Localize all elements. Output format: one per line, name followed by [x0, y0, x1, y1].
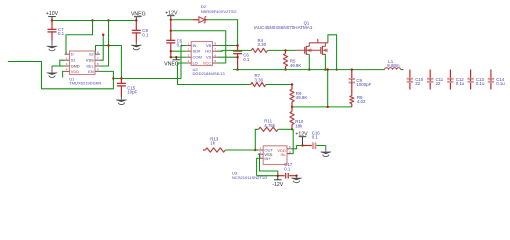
label L1: [388, 59, 393, 64]
capacitor C17: [278, 173, 297, 179]
wire VS sense down: [327, 70, 329, 107]
label R4: [258, 38, 267, 47]
wire LO to R7: [178, 63, 251, 85]
junction OUT node: [254, 149, 256, 151]
label C8: [142, 28, 149, 37]
capacitor C8: [132, 21, 141, 45]
svg-text:LO: LO: [192, 61, 197, 66]
svg-text:3.30: 3.30: [258, 42, 267, 47]
capacitor C12: [447, 70, 453, 90]
svg-text:9.88m: 9.88m: [387, 63, 400, 68]
junction VS rail: [327, 68, 329, 70]
capacitor C10: [407, 70, 413, 90]
wire +12V down: [170, 20, 172, 41]
svg-text:D: D: [71, 52, 74, 57]
svg-text:49.9K: 49.9K: [296, 95, 308, 100]
label U1: [69, 76, 75, 81]
ground at U1: [46, 72, 58, 77]
svg-text:22: 22: [415, 81, 420, 86]
svg-text:VB: VB: [206, 43, 212, 48]
resistor R11: [259, 127, 279, 131]
junction gate node: [284, 49, 286, 51]
resistor R5: [283, 50, 287, 69]
svg-text:49.9K: 49.9K: [290, 63, 302, 68]
svg-text:0.1: 0.1: [284, 166, 291, 171]
svg-text:4.75k: 4.75k: [264, 123, 276, 128]
label R7: [255, 73, 264, 82]
op-amp U3 NCS21911 body: [258, 146, 292, 165]
junction top rail at SEL riser: [107, 19, 109, 21]
power port +12V: [165, 10, 178, 19]
label U1 partno: [69, 80, 101, 85]
capacitor C6: [233, 46, 242, 70]
wire Q1 loop: [328, 35, 337, 70]
wire -12V rail: [257, 175, 278, 177]
junction S2 branch: [107, 44, 109, 46]
gate driver U2 DGD2184 body: [186, 42, 217, 66]
svg-text:0.1u: 0.1u: [496, 81, 505, 86]
svg-text:0.1: 0.1: [58, 31, 65, 36]
wire VS branch: [218, 56, 238, 58]
label R5: [290, 59, 302, 68]
wire R11 feedback: [278, 128, 292, 130]
label Q1 partno: [254, 25, 313, 30]
U3 pin names: [264, 148, 286, 161]
ground below C7: [46, 46, 58, 51]
svg-text:IAUC45N04S6N070HATMA1: IAUC45N04S6N070HATMA1: [254, 25, 313, 30]
wire S1 to gnd net: [60, 60, 65, 66]
ground below C8: [131, 45, 143, 50]
wire VDD stub down: [63, 71, 65, 77]
power port -12V: [272, 176, 283, 188]
wire GND pin: [52, 66, 65, 72]
junction mid node VS: [327, 106, 329, 108]
label U3: [232, 171, 238, 176]
resistor R4: [251, 48, 267, 52]
svg-text:NSR05F40XV2TSG: NSR05F40XV2TSG: [201, 9, 237, 14]
wire Q1 drain rail: [309, 39, 328, 43]
capacitor C16: [303, 142, 326, 149]
wire VDD link: [292, 146, 303, 149]
junction +12V lower: [170, 30, 172, 32]
svg-text:EN: EN: [88, 69, 94, 74]
label C17: [284, 162, 293, 171]
label C5: [177, 38, 184, 47]
wire R13 to OUT: [225, 149, 258, 151]
wire VSS riser: [100, 35, 103, 60]
label R13: [210, 136, 219, 145]
svg-text:0.1: 0.1: [177, 43, 184, 48]
wire S2 branch: [96, 46, 122, 79]
resistor R13: [203, 148, 225, 152]
svg-text:SD#: SD#: [192, 49, 201, 54]
capacitor C9: [349, 70, 355, 96]
junction C15: [120, 77, 122, 79]
junction top rail at C7: [51, 19, 53, 21]
junction C6 rail: [236, 68, 238, 70]
svg-text:0.1u: 0.1u: [456, 81, 465, 86]
label C15: [127, 85, 137, 94]
label C12: [456, 77, 465, 86]
wire Q1 source A down: [308, 54, 310, 69]
label C16: [312, 130, 321, 139]
wire top rail: [52, 20, 136, 22]
power port +12V (U3): [295, 131, 308, 145]
wire source rail: [233, 69, 385, 71]
svg-text:0.1: 0.1: [243, 57, 250, 62]
label D2 partno: [201, 9, 237, 14]
wire SEL riser: [100, 21, 109, 67]
junction COM: [170, 56, 172, 58]
U2 pin numbers: [187, 42, 216, 64]
junction top rail at D riser: [91, 19, 93, 21]
svg-text:S1: S1: [71, 58, 77, 63]
wire R11 to OUT: [255, 129, 258, 150]
label C6: [243, 53, 250, 62]
label R10: [295, 119, 304, 128]
U1 pin names: [71, 52, 95, 74]
svg-text:-12V: -12V: [272, 182, 283, 188]
svg-text:COM: COM: [192, 55, 201, 60]
wire signal to U2 IN: [113, 46, 186, 79]
junction R5 rail: [284, 68, 286, 70]
capacitor C5: [166, 40, 175, 57]
transistor Q1 FET A: [305, 43, 311, 55]
wire IN+ down: [257, 158, 259, 175]
label C13: [476, 77, 485, 86]
junction C9 rail: [351, 68, 353, 70]
wire mid node: [292, 106, 352, 108]
label R11: [264, 119, 276, 128]
resistor R10: [290, 107, 294, 129]
junction source A: [308, 68, 310, 70]
svg-text:10pF: 10pF: [127, 90, 137, 95]
wire IN- drop: [287, 129, 293, 153]
junction top rail at VNEG port: [135, 19, 137, 21]
label C11: [436, 77, 444, 86]
label C7: [58, 27, 65, 36]
junction +12V upper: [170, 19, 172, 21]
wire D riser: [66, 21, 93, 55]
label R9: [296, 91, 308, 100]
wire Q1 source B: [322, 54, 325, 69]
capacitor C15: [117, 79, 126, 100]
label U2 partno: [193, 71, 226, 76]
U2 pin names: [192, 43, 211, 66]
label Q1: [304, 20, 310, 25]
junction R9 top: [291, 83, 293, 85]
capacitor C13: [467, 70, 473, 90]
power port +10V: [46, 11, 59, 20]
ground below C15: [116, 100, 128, 105]
svg-text:VS: VS: [206, 55, 212, 60]
junction R10 bottom: [291, 128, 293, 130]
wire VSS down: [258, 154, 278, 176]
resistor R9: [290, 85, 294, 107]
capacitor C14: [488, 70, 494, 90]
wire left input: [8, 62, 113, 89]
wire D2 to VB: [208, 20, 238, 46]
diode D2: [193, 17, 208, 23]
label C14: [496, 77, 505, 86]
svg-text:VSS: VSS: [86, 58, 94, 63]
junction VS/C6: [236, 56, 238, 58]
junction R9 bottom: [291, 106, 293, 108]
svg-text:3.30: 3.30: [255, 77, 264, 82]
op-amp U1 TMUX6219 body: [65, 51, 101, 75]
svg-text:18k: 18k: [295, 123, 303, 128]
capacitor C11: [427, 70, 433, 90]
junction C17 right: [295, 175, 297, 177]
wire COM link: [171, 56, 186, 58]
resistor R8: [350, 96, 354, 107]
wire R4 to gates: [268, 49, 297, 51]
svg-text:VDD: VDD: [71, 69, 80, 74]
U1 pin numbers: [66, 50, 99, 71]
svg-text:22: 22: [436, 81, 441, 86]
power port VNEG (at U2): [164, 57, 180, 67]
label U2: [193, 67, 199, 72]
wire +12V to VCC riser: [171, 31, 226, 63]
junction VSS riser: [102, 34, 104, 36]
svg-text:IN: IN: [192, 43, 196, 48]
U3 pin numbers: [259, 145, 291, 159]
wire R7 to R9: [266, 84, 292, 86]
svg-text:SEL: SEL: [86, 64, 94, 69]
junction source B: [324, 68, 326, 70]
transistor Q1 FET B: [321, 43, 327, 55]
wire +12V to D2: [171, 19, 193, 21]
wire HO to R4: [218, 49, 252, 52]
wire Q1 gate link: [296, 49, 321, 51]
svg-text:GND: GND: [71, 64, 80, 69]
resistor R7: [251, 82, 266, 86]
svg-text:IN+: IN+: [264, 156, 271, 161]
svg-text:0.1u: 0.1u: [476, 81, 485, 86]
ground right of C17: [291, 176, 303, 183]
svg-text:VNEG: VNEG: [164, 61, 179, 67]
junction SD#: [170, 50, 172, 52]
capacitor C7: [48, 21, 57, 46]
svg-text:HO: HO: [205, 49, 211, 54]
svg-text:VCC: VCC: [203, 61, 212, 66]
label L1 value: [387, 63, 400, 68]
wire VB stub link: [218, 45, 238, 47]
svg-text:0.1: 0.1: [312, 135, 319, 140]
svg-text:IN-: IN-: [280, 152, 286, 157]
junction loop rail: [335, 68, 337, 70]
svg-text:TMUX6219DGKR: TMUX6219DGKR: [69, 80, 101, 85]
inductor L1: [385, 68, 404, 70]
wire SD# link: [171, 50, 186, 52]
label C9: [356, 78, 371, 87]
svg-text:DGD2184MS8-13: DGD2184MS8-13: [193, 71, 226, 76]
svg-text:1k: 1k: [210, 141, 215, 146]
junction VNEG lower port: [175, 56, 177, 58]
ground right of C16: [320, 146, 332, 157]
label U3 partno: [232, 175, 267, 180]
svg-text:4.02: 4.02: [357, 99, 366, 104]
junction VB/C6: [236, 44, 238, 46]
label R8: [357, 95, 366, 104]
power port VNEG (top): [131, 11, 146, 20]
junction EN/loop node: [112, 77, 114, 79]
svg-text:1000pF: 1000pF: [356, 82, 371, 87]
svg-text:0.1: 0.1: [142, 32, 149, 37]
svg-text:S2: S2: [89, 52, 95, 57]
wire EN branch: [100, 71, 113, 78]
label D2: [201, 4, 207, 9]
junction C17 left: [277, 175, 279, 177]
junction VDD node: [301, 144, 303, 146]
label C10: [415, 77, 424, 86]
